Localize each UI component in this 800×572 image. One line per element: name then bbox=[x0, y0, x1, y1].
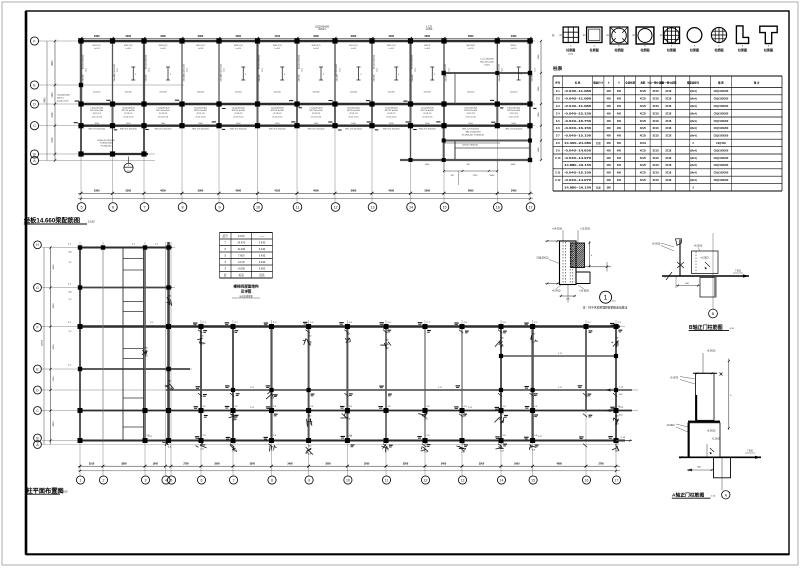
plan2 columns row E bbox=[78, 367, 171, 371]
svg-text:13: 13 bbox=[461, 478, 465, 482]
plan2 junction mini labels bbox=[193, 322, 622, 447]
svg-text:Z-1: Z-1 bbox=[556, 89, 560, 93]
svg-text:WKL7(7) 300x600: WKL7(7) 300x600 bbox=[230, 129, 248, 131]
svg-text:3500: 3500 bbox=[424, 34, 430, 38]
svg-text:3C18: 3C18 bbox=[653, 179, 660, 182]
svg-text:7: 7 bbox=[143, 206, 145, 210]
svg-text:4C25: 4C25 bbox=[640, 90, 647, 93]
svg-text:L5(1)240x400: L5(1)240x400 bbox=[445, 63, 447, 76]
svg-text:N2C14 b=200: N2C14 b=200 bbox=[232, 110, 246, 112]
svg-text:3C18: 3C18 bbox=[653, 120, 660, 123]
svg-text:C8@100/200: C8@100/200 bbox=[714, 172, 729, 175]
svg-text:6: 6 bbox=[112, 206, 114, 210]
svg-text:4000: 4000 bbox=[313, 188, 319, 192]
svg-text:1900: 1900 bbox=[153, 463, 159, 466]
plan1 rotated labels on all verticals bbox=[83, 68, 537, 82]
svg-text:12: 12 bbox=[424, 478, 428, 482]
svg-text:2C14 2C16: 2C14 2C16 bbox=[311, 117, 322, 119]
plan1 column at axis E left edge bbox=[79, 83, 532, 162]
svg-text:柱筋图: 柱筋图 bbox=[737, 47, 747, 52]
svg-text:9: 9 bbox=[218, 206, 220, 210]
svg-text:3C18: 3C18 bbox=[665, 164, 672, 167]
detail 2 center axis line bbox=[712, 233, 714, 309]
svg-text:4000: 4000 bbox=[388, 188, 394, 192]
svg-text:C8@100/200: C8@100/200 bbox=[714, 90, 729, 93]
svg-text:3C18: 3C18 bbox=[665, 157, 672, 160]
detail 3 bottom beam line bbox=[679, 450, 761, 459]
svg-text:2C14 2C16: 2C14 2C16 bbox=[195, 117, 206, 119]
svg-text:400: 400 bbox=[607, 90, 612, 93]
svg-text:标高: 标高 bbox=[239, 273, 245, 277]
svg-text:2C14 2C16: 2C14 2C16 bbox=[466, 117, 477, 119]
plan1 wing room text block bbox=[97, 140, 115, 148]
plan1 rotated beam labels on verticals bbox=[83, 54, 501, 76]
svg-text:C8@100/200: C8@100/200 bbox=[714, 112, 729, 115]
plan2 bottom beam axis B bbox=[78, 440, 625, 442]
svg-text:4000: 4000 bbox=[53, 264, 55, 270]
svg-text:2100: 2100 bbox=[52, 112, 54, 118]
svg-text:3C18: 3C18 bbox=[665, 179, 672, 182]
svg-text:6: 6 bbox=[201, 478, 203, 482]
note text under small table bbox=[232, 284, 260, 299]
svg-text:400: 400 bbox=[617, 179, 622, 182]
svg-text:箍 筋: 箍 筋 bbox=[718, 81, 724, 85]
svg-text:2700: 2700 bbox=[183, 463, 189, 466]
svg-text:见图: 见图 bbox=[596, 141, 602, 145]
svg-text:400: 400 bbox=[607, 135, 612, 138]
svg-text:序号: 序号 bbox=[554, 81, 560, 85]
svg-text:3C18: 3C18 bbox=[665, 112, 672, 115]
svg-text:8: 8 bbox=[181, 206, 183, 210]
svg-text:L-12 240x300: L-12 240x300 bbox=[480, 59, 494, 61]
svg-text:7.810: 7.810 bbox=[735, 271, 741, 273]
plan1 columns row F bbox=[78, 38, 532, 43]
svg-text:3400: 3400 bbox=[511, 188, 517, 192]
icon 3 square with circle and corner wedges bbox=[607, 27, 628, 52]
svg-text:N2C14 b=200: N2C14 b=200 bbox=[122, 110, 136, 112]
svg-text:3C18: 3C18 bbox=[653, 172, 660, 175]
svg-text:KL6(1)300x600: KL6(1)300x600 bbox=[374, 54, 376, 69]
svg-text:Z-6: Z-6 bbox=[556, 126, 560, 130]
svg-text:4C25: 4C25 bbox=[640, 127, 647, 130]
plan2 column labels wing bbox=[68, 244, 159, 367]
svg-text:h=100: h=100 bbox=[511, 48, 516, 50]
svg-text:5600: 5600 bbox=[468, 188, 474, 192]
detail 3 labels middle bbox=[666, 424, 721, 441]
svg-text:经板14.660梁配筋图: 经板14.660梁配筋图 bbox=[24, 217, 80, 225]
svg-text:3C18: 3C18 bbox=[653, 98, 660, 101]
plan1 columns row D bbox=[78, 101, 532, 106]
svg-text:3800: 3800 bbox=[121, 463, 127, 466]
svg-text:WKL1(7): WKL1(7) bbox=[349, 45, 358, 47]
svg-text:h=100: h=100 bbox=[126, 48, 131, 50]
svg-text:2C14 2C16: 2C14 2C16 bbox=[123, 117, 134, 119]
svg-text:N2C14 b=200: N2C14 b=200 bbox=[90, 110, 104, 112]
plan1 columns row C bbox=[78, 123, 532, 128]
svg-text:12: 12 bbox=[333, 206, 337, 210]
detail 1 left leader label bbox=[537, 258, 560, 264]
svg-text:3300: 3300 bbox=[94, 34, 100, 38]
svg-text:C8@100/200: C8@100/200 bbox=[714, 105, 729, 108]
svg-text:3C18: 3C18 bbox=[653, 149, 660, 152]
plan1 beam axis C bbox=[79, 124, 532, 126]
svg-text:柱表: 柱表 bbox=[553, 65, 563, 72]
svg-text:柱筋图: 柱筋图 bbox=[713, 47, 723, 52]
svg-text:KL6(1)300x600: KL6(1)300x600 bbox=[83, 54, 85, 69]
svg-text:240x400: 240x400 bbox=[221, 74, 223, 81]
svg-text:240x400: 240x400 bbox=[114, 74, 116, 81]
svg-text:L5(1)240x400: L5(1)240x400 bbox=[184, 63, 186, 76]
svg-text:WB 2xC8@150: WB 2xC8@150 bbox=[465, 132, 481, 134]
detail 3 upper rectangle bbox=[693, 372, 717, 420]
svg-text:2C14 2C16: 2C14 2C16 bbox=[92, 117, 103, 119]
svg-text:400: 400 bbox=[607, 105, 612, 108]
svg-text:14.300~21.080: 14.300~21.080 bbox=[564, 141, 592, 145]
svg-text:见详图: 见详图 bbox=[241, 289, 252, 294]
detail 3 caption bbox=[672, 491, 716, 498]
plan2 columns row H bbox=[78, 245, 171, 249]
svg-text:3C18: 3C18 bbox=[653, 105, 660, 108]
svg-text:380: 380 bbox=[607, 186, 612, 189]
plan1 thin vertical axis grid lines bbox=[81, 39, 530, 203]
detail 3 bottom bubble bbox=[722, 478, 730, 499]
svg-text:240x400: 240x400 bbox=[337, 74, 339, 81]
plan1 beam labels under axis F bbox=[92, 45, 517, 47]
plan2 beam axis D bbox=[166, 389, 632, 391]
plan1 wing vertical beams bbox=[81, 126, 144, 154]
plan2 columns row F bbox=[78, 324, 619, 329]
icon 2 plain square column section bbox=[583, 27, 602, 52]
svg-text:B:C8@200 T:C8@130: B:C8@200 T:C8@130 bbox=[462, 135, 484, 137]
plan2 columns row C bbox=[78, 408, 619, 413]
svg-text:400: 400 bbox=[617, 120, 622, 123]
svg-text:2C14 2C16: 2C14 2C16 bbox=[348, 117, 359, 119]
svg-text:-0.040~11.080: -0.040~11.080 bbox=[564, 104, 592, 108]
svg-text:WKL5(2): WKL5(2) bbox=[466, 45, 475, 47]
svg-text:——: —— bbox=[259, 235, 265, 238]
svg-text:400: 400 bbox=[607, 172, 612, 175]
svg-text:h: h bbox=[660, 35, 661, 37]
svg-text:1(4x4): 1(4x4) bbox=[689, 98, 696, 101]
plan1 detail marker circle below wing bbox=[124, 157, 133, 173]
plan2 left dimension line bbox=[42, 246, 56, 444]
svg-text:WKL3(7): WKL3(7) bbox=[312, 45, 321, 47]
svg-text:Z-10: Z-10 bbox=[555, 156, 561, 160]
svg-text:L5(1)240x400: L5(1)240x400 bbox=[499, 63, 501, 76]
svg-text:5: 5 bbox=[171, 478, 173, 482]
svg-text:2100: 2100 bbox=[53, 376, 55, 382]
svg-text:400: 400 bbox=[617, 98, 622, 101]
detail 2 left wall element bbox=[676, 239, 685, 277]
svg-text:WKL7(7) 300x600: WKL7(7) 300x600 bbox=[155, 129, 173, 131]
plan2 wing vertical beams bbox=[80, 242, 169, 441]
plan1 annotation cluster above axis 12 bbox=[315, 26, 330, 31]
icon 7 circle with grid column section bbox=[711, 27, 726, 51]
svg-text:1(4x4): 1(4x4) bbox=[689, 164, 696, 167]
plan1 columns row B wing bbox=[78, 151, 146, 156]
svg-text:1(4x4): 1(4x4) bbox=[689, 172, 696, 175]
svg-text:240x400: 240x400 bbox=[83, 74, 85, 81]
svg-text:400: 400 bbox=[607, 120, 612, 123]
detail 1 caption note bbox=[583, 305, 628, 309]
svg-text:[mm]: [mm] bbox=[569, 54, 574, 56]
svg-text:3500: 3500 bbox=[479, 463, 485, 466]
svg-text:240x400: 240x400 bbox=[446, 74, 448, 81]
svg-text:N2C14: N2C14 bbox=[318, 29, 326, 31]
svg-text:-0.040~16.150: -0.040~16.150 bbox=[564, 126, 592, 130]
svg-text:L1(1)240x400: L1(1)240x400 bbox=[507, 107, 521, 109]
svg-text:11: 11 bbox=[385, 478, 389, 482]
plan1 bottom dimension line bbox=[78, 188, 533, 199]
svg-text:3.400: 3.400 bbox=[259, 267, 266, 271]
svg-text:240x400: 240x400 bbox=[374, 74, 376, 81]
plan2 columns row B bbox=[78, 438, 619, 443]
svg-text:WKL7(7) 300x600: WKL7(7) 300x600 bbox=[419, 129, 437, 131]
svg-text:2C14: 2C14 bbox=[223, 68, 225, 72]
plan1 secondary room labels bbox=[94, 48, 516, 50]
svg-text:柱筋图: 柱筋图 bbox=[763, 47, 773, 52]
svg-text:全部纵筋: 全部纵筋 bbox=[624, 81, 635, 85]
svg-text:L1(1)240x400: L1(1)240x400 bbox=[421, 107, 435, 109]
svg-text:柱平面布置图: 柱平面布置图 bbox=[27, 487, 64, 495]
svg-text:240x400: 240x400 bbox=[532, 74, 534, 81]
svg-text:h: h bbox=[607, 35, 608, 37]
svg-text:1(4x4): 1(4x4) bbox=[689, 127, 696, 130]
svg-text:4C25: 4C25 bbox=[640, 105, 647, 108]
plan1 corridor annotation texts per bay bbox=[90, 107, 521, 125]
svg-text:WKL2(7): WKL2(7) bbox=[387, 45, 396, 47]
svg-text:3C18 2/3: 3C18 2/3 bbox=[159, 113, 168, 115]
svg-text:3C18: 3C18 bbox=[665, 172, 672, 175]
svg-text:WKL7(7) 300x600: WKL7(7) 300x600 bbox=[383, 129, 401, 131]
svg-text:3C18: 3C18 bbox=[665, 127, 672, 130]
svg-text:1: 1 bbox=[80, 478, 82, 482]
svg-text:2C16: 2C16 bbox=[484, 65, 490, 67]
svg-text:L1(1)240x400: L1(1)240x400 bbox=[464, 107, 478, 109]
svg-text:240x300: 240x300 bbox=[510, 92, 517, 94]
plan2 columns row D bbox=[231, 388, 618, 392]
svg-text:N2C14 b=200: N2C14 b=200 bbox=[385, 110, 399, 112]
svg-text:4800: 4800 bbox=[557, 463, 563, 466]
plan2 beam axis C bbox=[78, 410, 632, 412]
svg-text:C8@100/200: C8@100/200 bbox=[714, 179, 729, 182]
svg-text:240x300: 240x300 bbox=[388, 92, 395, 94]
svg-text:L-125: L-125 bbox=[426, 26, 433, 28]
svg-text:3C18 2/3: 3C18 2/3 bbox=[196, 113, 205, 115]
svg-text:240x300: 240x300 bbox=[350, 92, 357, 94]
icon 6 circle column section bbox=[687, 28, 702, 52]
svg-text:WKL7(7) 300x600: WKL7(7) 300x600 bbox=[462, 129, 480, 131]
svg-text:10: 10 bbox=[256, 206, 260, 210]
svg-text:WKL7(7) 300x600: WKL7(7) 300x600 bbox=[505, 129, 523, 131]
icon 4 square with inscribed circle bbox=[633, 27, 654, 52]
svg-text:15: 15 bbox=[442, 206, 446, 210]
svg-text:4C25: 4C25 bbox=[640, 135, 647, 138]
svg-text:400: 400 bbox=[607, 112, 612, 115]
svg-text:8: 8 bbox=[271, 478, 273, 482]
svg-text:L1(1)240x400: L1(1)240x400 bbox=[232, 107, 246, 109]
svg-text:240x300: 240x300 bbox=[235, 92, 242, 94]
svg-text:-0.040~15.150: -0.040~15.150 bbox=[564, 171, 592, 175]
svg-text:4: 4 bbox=[165, 478, 167, 482]
icon 5 dense grid square column section bbox=[660, 27, 680, 52]
svg-text:-0.040~15.150: -0.040~15.150 bbox=[564, 134, 592, 138]
svg-text:4000: 4000 bbox=[235, 34, 241, 38]
svg-text:5: 5 bbox=[80, 206, 82, 210]
svg-text:Z-3: Z-3 bbox=[556, 104, 560, 108]
svg-text:WKL2(7): WKL2(7) bbox=[273, 45, 282, 47]
svg-text:240x300: 240x300 bbox=[274, 92, 281, 94]
svg-text:-0.040~15.150: -0.040~15.150 bbox=[564, 111, 592, 115]
plan1 left axis letter bubbles bbox=[30, 37, 38, 165]
svg-text:h: h bbox=[583, 35, 584, 37]
svg-text:3C18 2/3: 3C18 2/3 bbox=[93, 113, 102, 115]
svg-text:4C25: 4C25 bbox=[640, 149, 647, 152]
svg-text:C8@100/200: C8@100/200 bbox=[714, 135, 729, 138]
detail 3 lower step shape bbox=[714, 458, 731, 478]
svg-text:3C18: 3C18 bbox=[665, 135, 672, 138]
svg-text:4800: 4800 bbox=[53, 421, 55, 427]
plan1 beam axis F bbox=[78, 40, 533, 43]
svg-text:2C14: 2C14 bbox=[148, 68, 150, 72]
svg-text:3C18 2/3: 3C18 2/3 bbox=[312, 113, 321, 115]
detail 2 left tick through beam bbox=[664, 272, 672, 280]
svg-text:+14.0010: +14.0010 bbox=[552, 227, 563, 230]
detail 2 lower dimension bbox=[676, 277, 700, 289]
svg-text:N2C14 b=200: N2C14 b=200 bbox=[271, 110, 285, 112]
svg-text:240x300: 240x300 bbox=[159, 92, 166, 94]
svg-text:L1(1)240x400: L1(1)240x400 bbox=[157, 107, 171, 109]
svg-text:h: h bbox=[633, 35, 634, 37]
detail 1 dimension lines bbox=[545, 240, 611, 285]
detail 1 step shape lower right bbox=[576, 272, 590, 284]
svg-text:5600: 5600 bbox=[468, 34, 474, 38]
svg-text:WKL2: WKL2 bbox=[511, 45, 518, 47]
svg-text:4000: 4000 bbox=[160, 188, 166, 192]
svg-text:3C18: 3C18 bbox=[665, 120, 672, 123]
svg-text:240x300: 240x300 bbox=[467, 92, 474, 94]
svg-text:L1(1)240x400: L1(1)240x400 bbox=[194, 107, 208, 109]
svg-text:4C25: 4C25 bbox=[640, 164, 647, 167]
plan1 vertical beams between D and C bbox=[81, 104, 530, 126]
svg-text:240x400: 240x400 bbox=[412, 74, 414, 81]
svg-text:2900: 2900 bbox=[214, 463, 220, 466]
svg-text:KL6(1)300x600: KL6(1)300x600 bbox=[299, 54, 301, 69]
svg-text:Z-12: Z-12 bbox=[555, 178, 561, 182]
svg-text:LB100 B:C8@200: LB100 B:C8@200 bbox=[97, 140, 115, 142]
svg-text:L1(1)240x400: L1(1)240x400 bbox=[385, 107, 399, 109]
svg-text:C8@100/200: C8@100/200 bbox=[714, 164, 729, 167]
svg-text:N2C14 b=200: N2C14 b=200 bbox=[507, 110, 521, 112]
svg-text:3C18 2/3: 3C18 2/3 bbox=[387, 113, 396, 115]
svg-text:2100: 2100 bbox=[89, 463, 95, 466]
svg-text:1: 1 bbox=[604, 295, 608, 302]
svg-text:3C18 2/3: 3C18 2/3 bbox=[273, 113, 282, 115]
svg-text:1:100: 1:100 bbox=[88, 219, 95, 223]
svg-text:见图: 见图 bbox=[596, 185, 602, 189]
svg-text:F: F bbox=[36, 326, 38, 330]
svg-text:2700: 2700 bbox=[598, 463, 604, 466]
svg-text:3C18 2/3: 3C18 2/3 bbox=[467, 113, 476, 115]
svg-text:h=100: h=100 bbox=[94, 48, 99, 50]
svg-text:3500: 3500 bbox=[424, 188, 430, 192]
svg-text:240x300: 240x300 bbox=[93, 92, 100, 94]
svg-text:2900: 2900 bbox=[514, 463, 520, 466]
svg-text:KL6(1)300x600: KL6(1)300x600 bbox=[146, 54, 148, 69]
svg-text:h=100: h=100 bbox=[313, 48, 318, 50]
detail 1 bottom labels bbox=[552, 284, 590, 303]
svg-text:WKL3(7): WKL3(7) bbox=[159, 45, 168, 47]
svg-text:3400: 3400 bbox=[441, 463, 447, 466]
svg-text:2C14: 2C14 bbox=[376, 68, 378, 72]
svg-text:19150: 19150 bbox=[42, 339, 44, 346]
plan2 vertical beams main part bbox=[201, 327, 616, 441]
storey level small table bbox=[220, 233, 273, 279]
svg-text:3900: 3900 bbox=[351, 34, 357, 38]
svg-text:9: 9 bbox=[308, 478, 310, 482]
svg-text:WKL1(7): WKL1(7) bbox=[92, 45, 101, 47]
svg-text:3300: 3300 bbox=[94, 188, 100, 192]
svg-text:400: 400 bbox=[617, 127, 622, 130]
svg-text:3C18: 3C18 bbox=[653, 164, 660, 167]
svg-text:3C18 2/3: 3C18 2/3 bbox=[510, 113, 519, 115]
svg-text:7.600: 7.600 bbox=[238, 254, 245, 258]
column type icons row bbox=[0, 0, 1, 1]
svg-text:240x300: 240x300 bbox=[125, 92, 132, 94]
svg-text:2C14: 2C14 bbox=[534, 68, 536, 72]
icon 8 L-shape column section bbox=[736, 26, 748, 52]
svg-text:3C18: 3C18 bbox=[653, 157, 660, 160]
svg-text:L1(1)240x400: L1(1)240x400 bbox=[90, 107, 104, 109]
plan1 annotation block left of axis D bbox=[57, 95, 71, 103]
plan2 beam mid labels bbox=[148, 353, 563, 438]
svg-text:2C14: 2C14 bbox=[301, 68, 303, 72]
svg-text:KL6(1)300x600: KL6(1)300x600 bbox=[259, 54, 261, 69]
plan1 corridor third text line bbox=[92, 117, 520, 119]
svg-text:注：柱子纵筋预埋预留钢筋连接做法: 注：柱子纵筋预埋预留钢筋连接做法 bbox=[583, 305, 628, 309]
svg-text:+1.0010: +1.0010 bbox=[700, 258, 709, 260]
svg-text:240x400: 240x400 bbox=[184, 74, 186, 81]
plan2 columns row G bbox=[78, 285, 171, 289]
svg-text:2C14: 2C14 bbox=[85, 68, 87, 72]
plan2 wing left annotations bbox=[68, 252, 71, 334]
svg-text:3900: 3900 bbox=[351, 188, 357, 192]
svg-text:-0.040~14.970: -0.040~14.970 bbox=[564, 178, 592, 182]
svg-text:LB100 C8@200: LB100 C8@200 bbox=[462, 144, 478, 146]
svg-text:400: 400 bbox=[617, 135, 622, 138]
detail 2 bottom bubble bbox=[709, 309, 718, 318]
svg-text:WKL7(7) 300x600: WKL7(7) 300x600 bbox=[88, 129, 106, 131]
svg-text:14: 14 bbox=[409, 206, 413, 210]
plan1 right room lower dimensions bbox=[425, 161, 516, 185]
svg-text:16: 16 bbox=[496, 206, 500, 210]
svg-text:3500: 3500 bbox=[403, 463, 409, 466]
svg-text:+5.0010: +5.0010 bbox=[666, 425, 675, 427]
svg-text:2C14 2C16: 2C14 2C16 bbox=[386, 117, 397, 119]
svg-text:N2C14: N2C14 bbox=[57, 98, 64, 100]
svg-text:14.880~16.150: 14.880~16.150 bbox=[564, 163, 592, 167]
plan2 rebar mark clusters bbox=[142, 296, 619, 456]
svg-text:11.040: 11.040 bbox=[237, 247, 245, 251]
svg-text:4C25: 4C25 bbox=[640, 120, 647, 123]
svg-text:h=100: h=100 bbox=[425, 48, 430, 50]
svg-text:3: 3 bbox=[145, 478, 147, 482]
svg-text:1(4x4): 1(4x4) bbox=[689, 179, 696, 182]
plan2 wing top beam axis H bbox=[78, 247, 172, 249]
svg-text:400: 400 bbox=[617, 105, 622, 108]
svg-text:-0.040~14.650: -0.040~14.650 bbox=[564, 148, 592, 152]
svg-text:400: 400 bbox=[607, 98, 612, 101]
